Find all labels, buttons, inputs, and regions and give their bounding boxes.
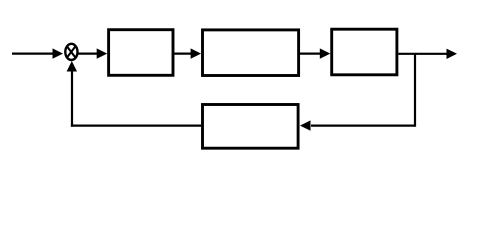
arrowhead into block 3 (320, 48, 331, 58)
wire: block 1 to block 2 (174, 52, 191, 54)
summing junction (circle with X) (65, 44, 77, 60)
wire: summing junction to block 1 (78, 52, 98, 54)
block 1 (109, 30, 173, 76)
wire: branch down from output node (414, 54, 416, 127)
arrowhead into block 2 (191, 48, 202, 58)
arrowhead up into summing junction (67, 61, 77, 72)
arrowhead output (447, 49, 458, 59)
feedback block (203, 105, 299, 149)
block 3 (332, 29, 397, 75)
arrowhead into summing junction (53, 48, 64, 58)
wire: input line (12, 52, 54, 54)
wire: block 2 to block 3 (300, 52, 321, 54)
arrowhead into block 1 (97, 48, 108, 58)
wire: output line (398, 53, 447, 55)
block 2 (203, 30, 299, 76)
wire: feedback vertical up segment (71, 72, 73, 127)
wire: feedback horizontal left segment (71, 124, 201, 126)
arrowhead into feedback block (300, 120, 311, 130)
wire: feedback horizontal right segment (311, 124, 415, 126)
